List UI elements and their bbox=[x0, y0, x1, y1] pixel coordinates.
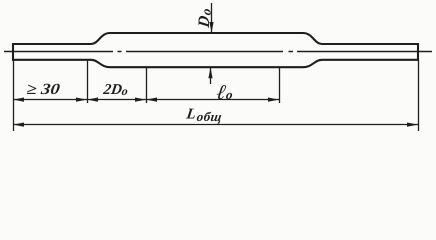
svg-text:Do: Do bbox=[196, 7, 213, 30]
arrow left Lobsh bbox=[13, 123, 24, 127]
arrow right at x=279 row1 bbox=[268, 98, 279, 102]
extension line x=87 bbox=[87, 60, 89, 103]
dimension line row1 bbox=[13, 99, 279, 101]
extension line x=146 bbox=[146, 67, 148, 103]
D0 leader line bottom bbox=[210, 67, 212, 84]
dimension line Lobsh bbox=[13, 124, 418, 126]
arrow pair at x=146 row1 bbox=[135, 98, 146, 102]
extension line left end x=13 bbox=[13, 60, 15, 131]
specimen body outline bbox=[13, 33, 418, 67]
centerline bbox=[4, 51, 432, 53]
arrow down D0 top bbox=[209, 22, 213, 33]
svg-text:2Do: 2Do bbox=[101, 82, 129, 98]
extension line x=279 bbox=[279, 67, 281, 103]
extension line right end x=418 bbox=[418, 60, 420, 131]
svg-text:≥ 30: ≥ 30 bbox=[25, 81, 61, 98]
arrow up D0 bottom bbox=[208, 67, 212, 78]
arrow left at x=13 row1 bbox=[13, 98, 24, 102]
svg-text:Lобщ: Lобщ bbox=[184, 107, 223, 124]
arrow pair at x=87 row1 bbox=[76, 98, 87, 102]
svg-text:ℓo: ℓo bbox=[215, 80, 235, 104]
D0 leader line top bbox=[211, 3, 213, 33]
arrow right Lobsh bbox=[407, 123, 418, 127]
